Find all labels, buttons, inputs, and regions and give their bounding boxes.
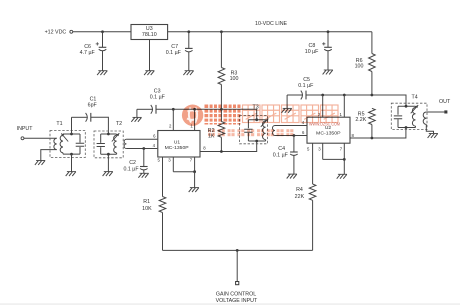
wire T2 secondary to U1 pin 4 (126, 148, 157, 150)
wire C5 left segment (287, 94, 302, 96)
watermark overlay (182, 105, 340, 137)
svg-text:7: 7 (190, 158, 193, 163)
terminal INPUT (21, 137, 24, 140)
resistor R3 (218, 68, 225, 85)
svg-text:6: 6 (153, 134, 156, 139)
tuning arrow T1 (61, 133, 68, 141)
capacitor C7 (185, 47, 193, 49)
transformer T4 dashed box (391, 103, 427, 129)
wire C8 lead from rail (327, 32, 329, 47)
wire U1 pin3-pin7 link (173, 171, 194, 173)
node T1 tank top (70, 133, 73, 136)
wire T1 tank bottom to ground (71, 154, 73, 171)
transformer T2 tank rectangle (101, 134, 117, 154)
node junction U2 pin2 riser (321, 94, 324, 97)
node junction C7 tap (187, 30, 190, 33)
wire U1 pin 3 stub (172, 157, 174, 172)
wire R1 to gain bus (162, 213, 164, 251)
svg-text:1: 1 (340, 112, 343, 117)
capacitor C5 (301, 91, 303, 100)
node junction gain bus (236, 249, 239, 252)
ground under U2 (338, 173, 347, 175)
resistor R1 (159, 197, 166, 213)
transformer T4 secondary coil (423, 112, 426, 124)
capacitor C4 (290, 151, 298, 153)
svg-text:10-VDC LINE: 10-VDC LINE (255, 21, 288, 27)
svg-text:T4: T4 (412, 94, 418, 100)
svg-text:5: 5 (307, 147, 310, 152)
wire C4 lead (293, 136, 295, 152)
wire T1 primary to ground (41, 150, 57, 161)
wire U2 pin 3 stub (322, 143, 324, 159)
node junction C2 tap (142, 147, 145, 150)
wire U1 pin 8 to T3 (200, 141, 257, 152)
regulator U3 box (131, 25, 168, 40)
transformer T2 secondary coil (124, 139, 126, 148)
node T1 tank bottom (70, 153, 73, 156)
ground under C8 (324, 69, 333, 71)
svg-text:GAIN CONTROL: GAIN CONTROL (216, 291, 256, 297)
wire rail corner down to R6 (371, 32, 373, 54)
wire U1 pin7 to ground (194, 172, 196, 188)
svg-text:7: 7 (340, 147, 343, 152)
ground at C5 left (283, 107, 292, 109)
transformer T3 tank rectangle (248, 120, 265, 141)
svg-text:OUT: OUT (439, 99, 451, 105)
wire T2 secondary to U1 pin 6 (126, 138, 157, 140)
svg-text:R1: R1 (143, 199, 150, 205)
wire U1 pin 1 riser (194, 109, 196, 130)
ground at C3 left (133, 116, 142, 118)
svg-text:3: 3 (318, 147, 321, 152)
wire C6 lead from rail (102, 32, 104, 47)
node junction R3 tap (220, 30, 223, 33)
transformer T4 tank rectangle (398, 106, 416, 127)
wire C7 lead from rail (188, 32, 190, 49)
transformer T1 tuned coil (60, 135, 63, 153)
svg-text:2: 2 (169, 124, 172, 129)
wire C8 to ground (327, 51, 329, 70)
node junction C4 tap (293, 134, 296, 137)
node junction C6 tap (101, 30, 104, 33)
node junction U1 pin2 riser (172, 108, 175, 111)
capacitor C8 plus mark (322, 42, 325, 45)
svg-text:22K: 22K (295, 194, 305, 200)
transformer T1 primary coil (54, 138, 57, 149)
svg-text:C4: C4 (278, 146, 285, 152)
svg-text:VOLTAGE INPUT: VOLTAGE INPUT (216, 298, 258, 304)
svg-text:78L10: 78L10 (142, 32, 157, 38)
node junction R6-R5-T4 feed (371, 94, 374, 97)
wire R3 top lead (220, 32, 222, 68)
capacitor C6 (99, 46, 107, 48)
capacitor C8 (324, 46, 332, 48)
svg-text:0.1 µF: 0.1 µF (150, 95, 166, 101)
resistor R2 (218, 122, 225, 138)
node junction U2 pin7 ground (343, 158, 346, 161)
wire C4 to ground (293, 156, 295, 175)
node junction U1 pin7 ground (193, 170, 196, 173)
svg-text:MC-1350P: MC-1350P (165, 145, 189, 151)
node T4 tank bottom (405, 126, 408, 129)
wire 10-VDC rail (168, 31, 372, 33)
wire C6 to ground (102, 51, 104, 71)
wire U2 pin 7 stub (343, 143, 345, 159)
ground under C7 (185, 70, 194, 72)
resistor R4 (309, 184, 316, 200)
wire C1 left segment (72, 116, 87, 118)
capacitor inside T1 (76, 143, 85, 146)
svg-text:INPUT: INPUT (17, 126, 34, 132)
ground under U1 (190, 187, 199, 189)
svg-text:4: 4 (153, 143, 156, 148)
svg-text:6: 6 (302, 130, 305, 135)
ground under C4 (288, 173, 297, 175)
wire R6 bottom lead (371, 72, 373, 96)
svg-text:10K: 10K (142, 206, 152, 212)
tuning arrow T4 (411, 105, 419, 113)
wire U2 pin3-pin7 link (323, 158, 345, 160)
terminal OUT (444, 110, 447, 113)
node T3 tank bottom (255, 140, 258, 143)
amplifier U2 box (307, 117, 350, 143)
wire R4 to gain bus (312, 200, 314, 250)
wire gain bus to terminal (236, 250, 238, 281)
tuning arrow T3 (261, 119, 269, 127)
wire C2 lead (143, 149, 145, 167)
wire input to T1 primary (24, 137, 57, 139)
wire U2 pin7 to ground (343, 159, 345, 174)
wire R3 bottom lead (220, 85, 222, 110)
svg-text:4.7 µF: 4.7 µF (80, 50, 96, 56)
wire C5 ground riser (286, 95, 288, 108)
svg-text:0.1 µF: 0.1 µF (166, 50, 182, 56)
node junction C8 tap (327, 30, 330, 33)
svg-text:0.1 µF: 0.1 µF (123, 166, 139, 172)
svg-text:100: 100 (355, 64, 364, 70)
svg-text:6pF: 6pF (88, 102, 98, 108)
node T3 tank top (255, 118, 258, 121)
node junction U1 pin1 riser (193, 108, 196, 111)
svg-text:MC-1350P: MC-1350P (316, 131, 341, 137)
page bottom edge shading (0, 303, 460, 305)
wire T2 bottom to ground (107, 154, 109, 171)
terminal gain control input (236, 282, 239, 285)
ground under T2 (104, 171, 113, 173)
svg-text:U1: U1 (174, 140, 181, 146)
wire T3 secondary to U2 pin 4 (275, 125, 307, 127)
ground under C6 (98, 70, 107, 72)
ground at T1 primary (36, 160, 45, 162)
wire T1 top riser (71, 117, 73, 134)
wire C7 to ground (188, 52, 190, 71)
wire T3 secondary to U2 pin 6 (275, 135, 307, 137)
ground under U3 (145, 70, 154, 72)
transformer T3 dashed box (240, 116, 268, 144)
resistor R6 (369, 54, 376, 72)
wire U2 pin 2 riser (322, 95, 324, 117)
wire C5 right segment (306, 94, 372, 96)
svg-text:C2: C2 (129, 160, 136, 166)
svg-text:0.1 µF: 0.1 µF (273, 153, 289, 159)
node T4 tank top (405, 105, 408, 108)
wire C3 left segment (137, 108, 152, 110)
node junction R3-R2 (220, 108, 223, 111)
transformer T2 tuned coil (114, 135, 117, 153)
wire C2 to ground (143, 170, 145, 173)
wire T4 feed (372, 95, 406, 106)
capacitor C2 (140, 166, 148, 168)
svg-text:100: 100 (230, 76, 239, 82)
capacitor inside T4 (394, 116, 402, 119)
node junction U2 pin1 riser (343, 94, 346, 97)
wire gain control bus (163, 249, 313, 251)
svg-text:R4: R4 (296, 187, 303, 193)
amplifier U1 box (158, 131, 200, 158)
svg-text:+12 VDC: +12 VDC (45, 29, 67, 35)
svg-text:5: 5 (158, 158, 161, 163)
ground under T1 (67, 171, 76, 173)
svg-text:T1: T1 (56, 121, 62, 127)
wire U2 pin 8 to T4 (350, 128, 406, 139)
wire T4 secondary to ground (426, 124, 433, 133)
transformer T3 tuned coil (263, 121, 266, 140)
svg-text:2.2K: 2.2K (355, 117, 366, 123)
node T2 tank bottom (107, 153, 110, 156)
wire node segment C3 to T3 (156, 109, 257, 120)
tuning arrow T2 (112, 133, 120, 141)
transformer T3 secondary coil (273, 126, 276, 136)
ground at T4 secondary (429, 133, 438, 135)
svg-text:10 µF: 10 µF (305, 49, 319, 55)
capacitor C1 (86, 113, 88, 122)
wire T4 secondary to OUT (426, 111, 444, 113)
node T2 tank top (107, 133, 110, 136)
wire R2 bottom lead (220, 137, 222, 151)
wire U1 pin 5 to R1 (162, 157, 164, 197)
node junction R5 bottom (371, 137, 374, 140)
wire R5 bottom lead (371, 125, 373, 139)
wire U2 pin 5 to R4 (312, 143, 314, 184)
terminal +12 VDC input (70, 30, 73, 33)
wire U1 pin 2 riser (172, 109, 174, 130)
ground under C2 (140, 172, 149, 174)
wire U2 pin 1 riser (343, 95, 345, 117)
svg-text:8: 8 (203, 145, 206, 150)
capacitor C3 (151, 105, 153, 114)
capacitor C6 plus mark (96, 42, 99, 45)
capacitor inside T3 (244, 129, 252, 132)
wire +12VDC terminal to U3 (73, 31, 131, 33)
svg-text:3: 3 (168, 158, 171, 163)
capacitor inside T2 (97, 144, 105, 147)
wire U1 pin 7 stub (194, 157, 196, 172)
svg-text:T2: T2 (116, 121, 122, 127)
svg-text:WWW.DZSC.COM: WWW.DZSC.COM (309, 121, 340, 126)
transformer T4 tuned coil (412, 108, 415, 127)
resistor R5 (369, 108, 376, 124)
transformer T1 dashed box (50, 131, 85, 158)
node junction R2 bottom (220, 150, 223, 153)
wire C3 ground riser (136, 109, 138, 117)
transformer T1 tank rectangle (63, 134, 80, 154)
svg-text:0.1 µF: 0.1 µF (298, 83, 314, 89)
wire R2 top lead (220, 109, 222, 121)
wire U3 ground stub (149, 40, 151, 71)
wire C1 right segment to T2 (91, 117, 109, 133)
svg-text:8: 8 (352, 133, 355, 138)
transformer T2 dashed box (94, 131, 123, 158)
